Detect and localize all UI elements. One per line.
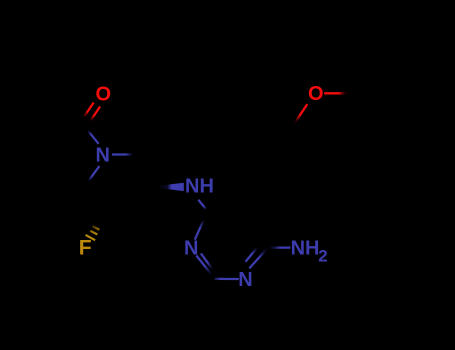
wire: ether O to right phenyl (horizontal) [324,92,347,94]
wire: hashed stereo wedge C5' to F, dash 3 [86,235,96,240]
svg-text:O: O [96,84,112,106]
wire: pyrimidine C4 to N3 [195,210,208,240]
wire: hashed stereo wedge C5' to F, dash 2 [90,231,97,235]
svg-text:N: N [95,144,109,166]
wire: anilino NH down to pyrimidine C4 [198,200,206,209]
wire: bold stereo wedge from piperidine C3' to anilino NH [157,183,184,191]
svg-text:NH: NH [291,237,320,259]
svg-text:2: 2 [318,247,327,266]
svg-text:O: O [308,83,324,105]
svg-text:N: N [238,269,252,291]
wire: ether O down-left to phenylene [295,104,308,123]
wire: piperidine N to ring C2' (horizontal) [112,153,133,155]
wire: C2 to N1 (horizontal) [214,278,239,280]
svg-text:NH: NH [185,176,214,198]
wire: N1=C6 double bond main line [249,249,266,269]
wire: C=O double bond of acetyl, parallel line [84,103,94,118]
wire: C=O double bond of acetyl, main line [90,107,100,122]
wire: C6 to amino NH2 (horizontal) [269,246,290,248]
wire: N1=C6 double bond inner line [246,248,258,262]
wire: hashed stereo wedge C5' to F, dash 1 [92,226,99,230]
wire: N3=C2 double bond main line [196,256,211,275]
svg-text:F: F [79,237,92,260]
wire: piperidine N to ring C6' [89,166,100,181]
wire: piperidine N to acetyl carbonyl carbon [88,131,99,144]
wire: N3=C2 double bond inner line [201,253,212,269]
